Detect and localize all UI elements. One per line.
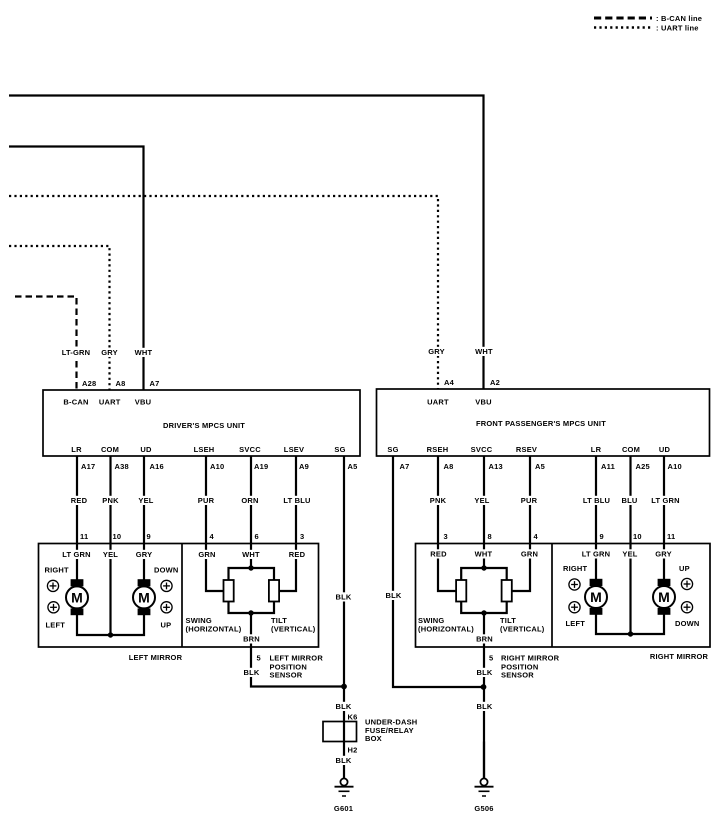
svg-text:YEL: YEL [474,496,489,505]
svg-text:WHT: WHT [475,550,493,559]
svg-text:YEL: YEL [622,550,637,559]
svg-text:A4: A4 [444,378,455,387]
svg-text:5: 5 [257,654,261,663]
svg-text:LSEV: LSEV [284,445,304,454]
svg-text:PUR: PUR [521,496,538,505]
potentiometer swing horizontal right [456,580,466,602]
label YEL right mirror [622,549,639,558]
svg-text:BLK: BLK [476,668,492,677]
svg-text:(VERTICAL): (VERTICAL) [271,625,316,634]
polarity plus mid bottom [161,602,172,613]
wire RED to right swing pot wiper [438,544,456,592]
svg-text:A16: A16 [150,462,164,471]
label WHT right sensor [475,549,493,558]
svg-text:LT GRN: LT GRN [62,550,91,559]
wire YEL common down [109,544,111,636]
svg-text:DOWN: DOWN [154,566,179,575]
svg-text:VBU: VBU [135,398,151,407]
wire left sensor bottom rail [229,602,275,614]
svg-text:SG: SG [387,445,398,454]
svg-text:GRY: GRY [428,347,445,356]
legend UART dotted line sample [594,26,652,28]
svg-text:UP: UP [679,564,690,573]
motor M4 right mirror tilt [653,544,675,615]
svg-text:LEFT MIRROR: LEFT MIRROR [129,653,183,662]
svg-text:G506: G506 [474,804,493,813]
svg-text:B-CAN: B-CAN [63,398,88,407]
svg-text:A28: A28 [82,379,96,388]
svg-text:BLU: BLU [621,496,637,505]
svg-text:10: 10 [113,532,122,541]
label wire color RED [71,496,88,505]
potentiometer tilt vertical left [269,580,279,602]
svg-text:9: 9 [600,532,604,541]
junction BRN bottom rail [248,610,253,615]
svg-text:LT GRN: LT GRN [651,496,680,505]
label wire color BLK driver SG [335,592,352,601]
wire WHT to sensor top rail [250,544,252,569]
svg-text:: B-CAN line: : B-CAN line [656,14,702,23]
svg-text:9: 9 [147,532,151,541]
polarity plus right left bottom [569,602,580,613]
label LT GRN right mirror [581,549,612,558]
op-amp U1 driver's MPCS unit box [43,390,360,456]
svg-text:LT BLU: LT BLU [583,496,610,505]
junction WHT top rail [248,565,253,570]
svg-text:4: 4 [210,532,215,541]
svg-text:A38: A38 [115,462,129,471]
label wire color YEL right [474,496,491,505]
svg-text:RED: RED [430,550,447,559]
wire BRN down from left sensor [250,613,252,647]
svg-text:A11: A11 [601,462,615,471]
svg-text:BLK: BLK [243,668,259,677]
svg-text:RIGHT: RIGHT [563,564,588,573]
svg-text:G601: G601 [334,804,353,813]
svg-text:5: 5 [489,654,493,663]
label wire color BLU right [621,496,638,505]
svg-text:LR: LR [591,445,602,454]
polarity plus right left top [569,579,580,590]
svg-text:M: M [71,589,83,605]
label wire color LT BLU right [581,496,612,505]
wire RSEH PNK to right sensor pin 3 [437,456,439,544]
wire BLK from left sensor to junction [251,647,344,687]
right mirror internal divider [551,544,553,648]
wire B-CAN line LT-GRN to driver MPCS A28 [15,297,77,391]
wire GRN to swing pot wiper [206,544,224,592]
svg-text:3: 3 [300,532,304,541]
junction BLK left [341,684,347,690]
svg-text:6: 6 [255,532,259,541]
svg-text:VBU: VBU [475,398,491,407]
svg-text:K6: K6 [348,713,358,722]
label wire color GRY passenger UART [428,347,445,356]
wire VBU WHT to driver MPCS A7 [9,147,144,391]
wire right sensor top rail [461,568,507,580]
svg-text:SENSOR: SENSOR [501,671,534,680]
wire SG BLK from driver MPCS A5 [343,456,345,687]
svg-text:UART: UART [99,398,121,407]
svg-text:LT-GRN: LT-GRN [62,348,91,357]
label GRN left sensor [198,550,215,559]
motor M2 left mirror tilt [133,544,155,616]
label wire color LT BLU [282,496,313,505]
svg-text:: UART line: : UART line [656,24,699,33]
svg-text:WHT: WHT [475,347,493,356]
wire SG BLK from passenger MPCS A7 [393,456,484,687]
svg-text:WHT: WHT [242,550,260,559]
svg-text:RIGHT: RIGHT [45,566,70,575]
label wire color LT-GRN [61,348,92,357]
junction BLK right [481,684,487,690]
svg-text:GRY: GRY [136,550,153,559]
svg-text:BLK: BLK [335,593,351,602]
svg-text:LT GRN: LT GRN [582,550,611,559]
wire GRN to right tilt pot wiper [512,544,530,592]
svg-text:SG: SG [334,445,345,454]
polarity plus right right top [681,578,692,589]
wire BRN down from right sensor [483,613,485,647]
label GRN right sensor [521,549,538,558]
svg-text:WHT: WHT [135,348,153,357]
svg-text:M: M [658,589,670,605]
wire UD LT GRN to right mirror pin 11 [663,456,665,544]
ground G506 [475,742,494,797]
wire UART line GRY to driver MPCS A8 [9,246,110,390]
wire BLK junction to fuse box K6 [343,687,345,722]
wire LSEH PUR to left sensor pin 4 [205,456,207,544]
label wire color GRY driver UART [101,348,118,357]
label BLK below right junction [476,702,493,711]
wire RED to tilt pot wiper [279,544,296,592]
svg-text:COM: COM [101,445,119,454]
svg-text:LR: LR [71,445,82,454]
svg-text:A10: A10 [210,462,224,471]
potentiometer tilt vertical right [502,580,512,602]
label wire color PUR right [521,496,538,505]
label wire color BLK passenger SG [385,591,402,600]
potentiometer swing horizontal left [224,580,234,602]
wire LSEV LT BLU to left sensor pin 3 [295,456,297,544]
svg-text:A25: A25 [636,462,650,471]
svg-text:COM: COM [622,445,640,454]
junction YEL rail [108,632,113,637]
label wire color PNK right [430,496,447,505]
wire RSEV PUR to right sensor pin 4 [529,456,531,544]
svg-text:RIGHT MIRROR: RIGHT MIRROR [501,654,560,663]
svg-text:RIGHT MIRROR: RIGHT MIRROR [650,652,709,661]
svg-text:A9: A9 [299,462,309,471]
svg-text:A7: A7 [150,379,160,388]
legend B-CAN dashed line sample [594,17,652,20]
svg-text:A8: A8 [116,379,126,388]
svg-text:4: 4 [534,532,539,541]
svg-text:PUR: PUR [198,496,215,505]
svg-text:SVCC: SVCC [471,445,493,454]
label WHT left sensor [242,550,260,559]
svg-text:11: 11 [667,532,675,541]
label BRN left [243,634,260,643]
label wire color WHT driver VBU [135,348,153,357]
label RED right sensor [430,549,447,558]
wire LR LT BLU to right mirror pin 9 [595,456,597,544]
wire right sensor bottom rail [461,602,507,614]
svg-text:RSEV: RSEV [516,445,537,454]
svg-text:YEL: YEL [103,550,118,559]
svg-text:DOWN: DOWN [675,619,700,628]
svg-text:GRY: GRY [655,550,672,559]
label wire color LT GRN right [650,496,681,505]
svg-text:A17: A17 [81,462,95,471]
ground G601 [335,742,354,797]
label GRY right mirror [655,549,672,558]
label BLK left sensor wire [243,668,260,677]
op-amp U2 front passenger's MPCS unit box [377,389,710,456]
svg-text:A19: A19 [254,462,268,471]
label BLK below left junction [335,702,352,711]
svg-text:YEL: YEL [138,496,153,505]
label wire color PUR [198,496,215,505]
svg-text:GRN: GRN [521,550,538,559]
svg-text:A2: A2 [490,378,500,387]
label wire color WHT passenger VBU [475,347,493,356]
svg-text:M: M [138,589,150,605]
label YEL left mirror [102,550,119,559]
wire UD YEL to left mirror pin 9 [143,456,145,544]
svg-text:DRIVER'S MPCS UNIT: DRIVER'S MPCS UNIT [163,421,245,430]
label wire color ORN [241,496,258,505]
wire COM PNK to left mirror pin 10 [109,456,111,544]
svg-text:8: 8 [488,532,492,541]
label BLK right sensor wire [476,668,493,677]
label LT GRN left mirror [61,550,92,559]
svg-text:(VERTICAL): (VERTICAL) [500,625,545,634]
wire SVCC ORN to left sensor pin 6 [250,456,252,544]
svg-text:H2: H2 [348,746,358,755]
wire left sensor top rail [229,568,275,580]
svg-text:BLK: BLK [335,702,351,711]
svg-text:UD: UD [659,445,671,454]
left mirror internal divider [181,544,183,648]
label GRY left mirror [136,550,153,559]
svg-text:10: 10 [633,532,642,541]
label BLK above G601 [335,756,352,765]
svg-text:RED: RED [71,496,88,505]
under-dash fuse/relay box [323,722,357,742]
junction BRN right bottom rail [481,610,486,615]
left mirror assembly box [39,544,319,648]
wire WHT to right sensor top rail [483,544,485,569]
wire YEL common down right [629,544,631,635]
svg-text:PNK: PNK [430,496,447,505]
wire UART line GRY to passenger MPCS A4 [9,196,438,389]
svg-text:UP: UP [161,621,172,630]
svg-text:FRONT PASSENGER'S MPCS UNIT: FRONT PASSENGER'S MPCS UNIT [476,419,606,428]
right mirror assembly box [416,544,711,648]
polarity plus left bottom [48,602,59,613]
wire SVCC YEL to right sensor pin 8 [483,456,485,544]
motor M1 left mirror swing [66,544,88,616]
wire motor common rail left mirror [77,615,144,635]
svg-text:BRN: BRN [243,635,260,644]
wire LR RED to left mirror pin 11 [76,456,78,544]
svg-text:SENSOR: SENSOR [270,671,303,680]
svg-text:BLK: BLK [476,702,492,711]
label wire color PNK [102,496,119,505]
label RED left sensor [289,550,306,559]
svg-text:BOX: BOX [365,734,382,743]
polarity plus right right bottom [681,602,692,613]
polarity plus left top [47,580,58,591]
junction YEL rail right [628,631,633,636]
svg-text:A7: A7 [400,462,410,471]
svg-text:A10: A10 [668,462,682,471]
svg-text:UD: UD [140,445,152,454]
svg-text:(HORIZONTAL): (HORIZONTAL) [418,625,474,634]
svg-text:A13: A13 [489,462,503,471]
svg-text:LT BLU: LT BLU [283,496,310,505]
motor M3 right mirror swing [585,544,607,615]
polarity plus mid top [161,580,172,591]
junction WHT right top rail [481,565,486,570]
svg-text:BLK: BLK [385,591,401,600]
svg-text:RSEH: RSEH [427,445,449,454]
svg-text:11: 11 [80,532,88,541]
wire BLK from right sensor down [483,647,485,779]
svg-text:A5: A5 [535,462,545,471]
wire motor common rail right mirror [596,615,664,635]
svg-text:LEFT: LEFT [46,621,66,630]
svg-text:LSEH: LSEH [194,445,215,454]
svg-text:A8: A8 [444,462,454,471]
wire COM BLU to right mirror pin 10 [629,456,631,544]
wire VBU WHT to passenger MPCS A2 [9,96,484,390]
label wire color YEL [138,496,155,505]
svg-text:RED: RED [289,550,306,559]
svg-text:BLK: BLK [335,756,351,765]
svg-text:ORN: ORN [241,496,258,505]
svg-text:SVCC: SVCC [239,445,261,454]
label BRN right [476,634,493,643]
svg-text:PNK: PNK [102,496,119,505]
svg-text:LEFT: LEFT [566,619,586,628]
svg-text:GRY: GRY [101,348,118,357]
svg-text:3: 3 [444,532,448,541]
svg-text:A5: A5 [348,462,358,471]
svg-text:M: M [590,589,602,605]
svg-text:BRN: BRN [476,635,493,644]
svg-text:GRN: GRN [198,550,215,559]
svg-text:LEFT MIRROR: LEFT MIRROR [270,654,324,663]
svg-text:UART: UART [427,398,449,407]
svg-text:(HORIZONTAL): (HORIZONTAL) [186,625,242,634]
